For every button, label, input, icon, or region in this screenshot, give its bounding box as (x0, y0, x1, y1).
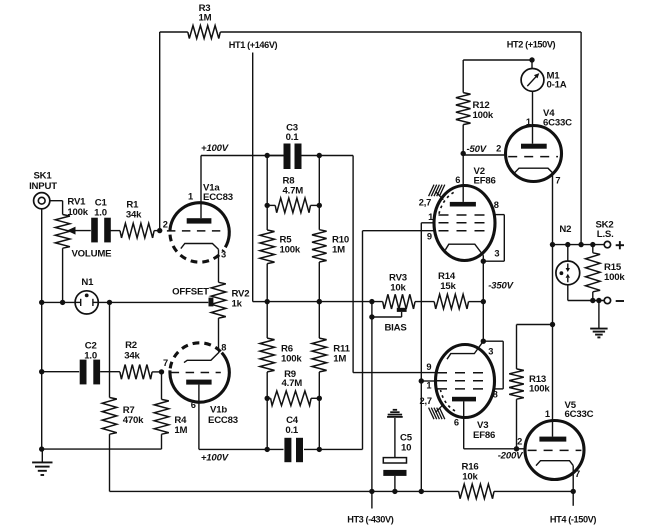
svg-text:2: 2 (517, 437, 522, 447)
svg-text:INPUT: INPUT (29, 181, 57, 192)
svg-text:6C33C: 6C33C (565, 409, 594, 420)
svg-text:1: 1 (188, 192, 193, 202)
svg-text:ECC83: ECC83 (208, 415, 238, 426)
svg-text:6: 6 (455, 175, 460, 185)
svg-text:1M: 1M (199, 13, 212, 24)
svg-text:1M: 1M (332, 245, 345, 256)
svg-text:15k: 15k (440, 281, 456, 292)
svg-text:6C33C: 6C33C (543, 117, 572, 128)
svg-text:HT1 (+146V): HT1 (+146V) (229, 40, 278, 50)
svg-text:L.S.: L.S. (597, 229, 614, 240)
svg-text:HT4 (-150V): HT4 (-150V) (550, 515, 596, 525)
svg-text:34k: 34k (124, 350, 140, 361)
svg-text:1: 1 (428, 212, 433, 222)
svg-text:0-1A: 0-1A (547, 79, 567, 90)
svg-text:2,7: 2,7 (419, 198, 431, 208)
svg-text:100k: 100k (473, 110, 494, 121)
svg-text:100k: 100k (281, 353, 302, 364)
svg-text:10k: 10k (390, 282, 406, 293)
svg-text:EF86: EF86 (474, 176, 496, 187)
svg-text:0.1: 0.1 (285, 425, 299, 436)
svg-text:N2: N2 (559, 224, 571, 235)
svg-text:1: 1 (526, 117, 531, 127)
svg-text:100k: 100k (529, 384, 550, 395)
svg-text:8: 8 (493, 390, 498, 400)
svg-text:3: 3 (494, 249, 499, 259)
svg-text:OFFSET: OFFSET (172, 286, 209, 297)
svg-text:7: 7 (575, 469, 580, 479)
svg-text:HT2 (+150V): HT2 (+150V) (507, 40, 556, 50)
svg-text:1k: 1k (232, 298, 243, 309)
svg-text:1M: 1M (174, 425, 187, 436)
svg-text:4.7M: 4.7M (282, 378, 303, 389)
svg-text:4.7M: 4.7M (283, 186, 304, 197)
svg-text:2: 2 (163, 219, 168, 229)
svg-text:ECC83: ECC83 (203, 192, 233, 203)
svg-text:N1: N1 (81, 277, 94, 288)
svg-text:9: 9 (427, 232, 432, 242)
svg-text:1: 1 (545, 409, 550, 419)
svg-text:2: 2 (496, 143, 501, 153)
svg-text:6: 6 (191, 400, 196, 410)
svg-text:7: 7 (163, 358, 168, 368)
svg-text:+100V: +100V (201, 143, 230, 154)
svg-text:+100V: +100V (201, 453, 230, 464)
svg-text:3: 3 (488, 346, 493, 356)
svg-text:8: 8 (221, 342, 226, 352)
svg-text:1.0: 1.0 (94, 208, 107, 219)
svg-text:8: 8 (494, 200, 499, 210)
svg-text:100k: 100k (604, 272, 625, 283)
svg-text:-200V: -200V (498, 451, 524, 462)
svg-text:100k: 100k (280, 245, 301, 256)
svg-text:7: 7 (555, 176, 560, 186)
svg-text:V1b: V1b (210, 404, 227, 415)
svg-text:1: 1 (426, 381, 431, 391)
svg-text:9: 9 (426, 362, 431, 372)
svg-text:VOLUME: VOLUME (71, 248, 112, 259)
svg-text:34k: 34k (126, 210, 142, 221)
svg-text:-50V: -50V (466, 144, 487, 155)
svg-text:1M: 1M (333, 353, 346, 364)
svg-text:2,7: 2,7 (420, 396, 432, 406)
svg-text:EF86: EF86 (473, 430, 495, 441)
svg-text:6: 6 (454, 418, 459, 428)
svg-text:BIAS: BIAS (384, 322, 407, 333)
svg-text:0.1: 0.1 (286, 132, 300, 143)
svg-text:100k: 100k (67, 207, 88, 218)
svg-text:10k: 10k (462, 471, 478, 482)
svg-text:HT3 (-430V): HT3 (-430V) (347, 515, 393, 525)
svg-text:-350V: -350V (488, 281, 514, 292)
svg-text:10: 10 (401, 442, 411, 453)
svg-text:3: 3 (221, 250, 226, 260)
svg-text:470k: 470k (123, 415, 144, 426)
